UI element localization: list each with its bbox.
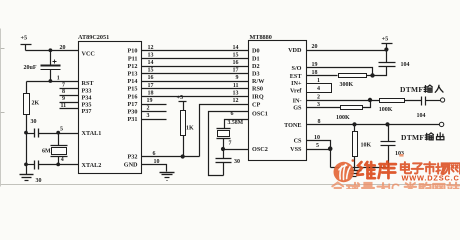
wire VDD row [307,50,387,52]
U1 pin label P37 [82,108,92,115]
wire GS row [307,107,341,109]
wire P31 stub [142,119,167,121]
svg-text:9: 9 [236,75,239,81]
svg-text:17: 17 [148,83,154,89]
wire S/G row [307,68,373,76]
U1 label AT89C2051 [78,34,109,41]
svg-text:2: 2 [317,95,320,101]
svg-text:DTMF: DTMF [400,85,423,94]
svg-text:CS: CS [294,138,302,145]
watermark wiku characters [357,162,396,179]
svg-text:13: 13 [233,90,239,96]
U2 pin label TONE [284,122,301,129]
svg-text:30: 30 [234,159,240,165]
svg-text:IN+: IN+ [291,80,302,87]
svg-text:6: 6 [153,151,156,157]
U1 pin label P14 [128,78,138,85]
svg-text:TONE: TONE [284,122,301,129]
svg-text:AT89C2051: AT89C2051 [78,34,109,41]
terminal DTMF input [441,98,445,102]
resistor R5 100K [379,99,422,114]
svg-text:CP: CP [252,102,260,109]
watermark TM mark [399,154,403,157]
U1 pin label P30 [128,109,138,116]
svg-text:D3: D3 [252,71,260,78]
resistor R6 100K [336,101,371,121]
U1 pin label GND [124,162,138,169]
svg-text:5: 5 [316,143,319,149]
+5 pull-up supply [177,94,187,111]
pin number 4 (Vref) [317,86,320,92]
wire XTAL2 row [39,164,79,166]
svg-text:RST: RST [82,80,95,87]
wire GND stub [142,165,167,172]
capacitor C6 104 [417,97,441,120]
wire P11-D1 [142,58,249,60]
node TONE-103 junction [385,122,389,126]
svg-text:OSC1: OSC1 [252,111,268,118]
svg-text:11: 11 [233,83,239,89]
pin number 12 [148,45,154,51]
wire OSC1 loop [209,112,249,176]
svg-text:P16: P16 [128,93,138,100]
capacitor C4 30pF [216,150,241,176]
svg-text:P11: P11 [128,55,138,62]
U1 pin label P12 [128,63,138,70]
U1 pin label P13 [128,71,138,78]
watermark www.dzsc.com [402,174,460,183]
svg-text:19: 19 [147,98,153,104]
label DTMF input [400,85,443,94]
svg-text:+5: +5 [21,34,28,41]
U2 pin label OSC1 [252,111,268,118]
U2 pin label GS [293,105,302,112]
U2 pin label CS [294,138,302,145]
U2 pin label D1 [252,55,260,62]
pin number 20 (VCC) [60,45,66,51]
svg-text:VSS: VSS [290,146,302,153]
node VSS junction [328,146,333,151]
wire P10-D0 [142,50,249,52]
+5 supply (left) [21,34,32,50]
node XTAL1 rail junction [24,131,28,135]
svg-text:6: 6 [231,111,234,117]
svg-text:18: 18 [312,70,318,76]
U2 pin label D0 [252,48,260,55]
U2 pin label R/W [252,78,265,85]
wire OSC2 row [224,149,249,151]
capacitor C5 104 [373,51,410,76]
U1 pin label P16 [128,93,138,100]
svg-text:16: 16 [148,75,154,81]
U2 pin label CP [252,102,260,109]
pin number 3 (P31) [147,113,150,119]
resistor R7 10K [353,125,372,168]
node TONE-10K junction [352,122,356,126]
svg-text:16: 16 [233,60,239,66]
svg-text:8: 8 [318,119,321,125]
wire P14-R/W [142,81,249,83]
wire P12-D2 [142,66,249,68]
U2 pin label IN+ [291,80,302,87]
+5 supply (right) [382,36,393,51]
svg-text:IN-: IN- [293,97,302,104]
pin number 17 [148,83,154,89]
wire P37 stub [60,108,79,110]
svg-text:14: 14 [148,60,154,66]
pin number 6 (OSC1) [231,111,234,117]
pin number 2 (IN-) [317,95,320,101]
svg-text:P17: P17 [128,101,138,108]
svg-text:MT8880: MT8880 [250,34,272,41]
wire P17 stub [142,104,167,106]
U2 pin label S/O [292,65,302,72]
wire CP to P32 link [200,105,249,157]
svg-text:104: 104 [417,113,426,119]
wire P16-IRQ [142,96,249,98]
resistor R3 300K [307,74,373,89]
node XTAL2-crystal junction [56,163,60,167]
U1 pin label P31 [128,116,138,123]
svg-text:7: 7 [229,141,232,147]
svg-text:WWW.DZSC.COM: WWW.DZSC.COM [402,174,460,183]
svg-text:IRQ: IRQ [252,93,264,100]
wire P33 stub [60,88,79,90]
node XTAL1-crystal junction [56,131,60,135]
pin number 7 (OSC2) [229,141,232,147]
U2 pin label D2 [252,63,260,70]
svg-text:RS0: RS0 [252,86,263,93]
svg-text:2K: 2K [32,101,40,107]
svg-text:1: 1 [57,76,60,82]
wire VSS row [307,149,331,151]
svg-text:P15: P15 [128,86,138,93]
capacitor C2 30pF [27,119,39,138]
svg-text:D2: D2 [252,63,260,70]
wire bottom ground rail [331,150,389,168]
svg-text:300K: 300K [340,82,354,88]
watermark quanqiuzuida-IC-caigouwangzhan characters [332,182,459,196]
capacitor C3 30pF [27,161,42,185]
U2 pin label D3 [252,71,260,78]
wire 1K to P32 row [183,136,185,157]
pin number 19 (P17) [147,98,153,104]
resistor R2 1K [181,111,195,136]
svg-text:100K: 100K [379,107,393,113]
op-amp U2 MT8880 body [249,41,307,161]
ground (left rail) [20,175,34,183]
wire P35 stub [60,102,79,104]
svg-text:P10: P10 [128,48,138,55]
svg-text:2: 2 [147,106,150,112]
U1 pin label P17 [128,101,138,108]
svg-text:DTMF: DTMF [401,133,424,142]
svg-text:8: 8 [62,89,65,95]
wire VCC row [26,50,79,52]
U1 pin label XTAL2 [82,162,102,169]
wire XTAL1 row [39,133,79,135]
U1 pin label P35 [82,101,92,108]
U2 pin label RS0 [252,86,263,93]
pin number 18 (EST) [312,70,318,76]
svg-text:3: 3 [317,102,320,108]
svg-text:7: 7 [62,82,65,88]
ground (U1 GND) [160,173,175,181]
svg-text:P37: P37 [82,108,92,115]
U1 pin label P34 [82,95,92,102]
svg-text:D0: D0 [252,48,260,55]
svg-text:OSC2: OSC2 [252,146,268,153]
U2 pin label IRQ [252,93,264,100]
U1 pin label P33 [82,88,92,95]
pin number 1 (IN+) [317,78,320,84]
pin number 19 (S/G) [312,62,318,68]
svg-text:S/O: S/O [292,65,302,72]
pin number 4 (XTAL2) [61,157,64,163]
crystal Y2 3.58M [217,120,244,150]
svg-text:14: 14 [233,45,239,51]
svg-text:+5: +5 [382,36,389,43]
svg-text:12: 12 [233,98,239,104]
svg-text:30: 30 [31,119,37,125]
svg-text:100K: 100K [336,115,350,121]
svg-text:P12: P12 [128,63,138,70]
wire P13-D3 [142,73,249,75]
pin number 17 [233,68,239,74]
pin number 9 [236,75,239,81]
pin number 20 (VDD) [312,44,318,50]
capacitor C7 103 [381,125,405,168]
pin number 13 [148,52,154,58]
svg-text:VCC: VCC [82,51,95,58]
pin number 7 (P33) [62,82,65,88]
op-amp U1 AT89C2051 body [79,42,142,174]
U2 pin label Vref [290,88,302,95]
pin number 9 (P35) [62,96,65,102]
svg-text:20: 20 [312,44,318,50]
U2 label MT8880 [250,34,272,41]
pin number 12 (CP) [233,98,239,104]
svg-text:18: 18 [148,90,154,96]
svg-text:10: 10 [314,135,320,141]
pin number 15 [233,52,239,58]
U2 pin label VDD [288,47,302,54]
U1 pin label P15 [128,86,138,93]
node IN- junction [368,98,372,102]
node OSC2 junction [221,147,225,151]
svg-text:D1: D1 [252,55,260,62]
wire crystal row [225,120,249,129]
pin number 13 [233,90,239,96]
pin number 3 (GS) [317,102,320,108]
svg-text:17: 17 [233,68,239,74]
pin number 15 [148,68,154,74]
svg-text:IC: IC [388,182,401,190]
svg-text:P30: P30 [128,109,138,116]
svg-text:GND: GND [124,162,138,169]
svg-text:104: 104 [401,62,410,68]
wire P15-RS0 [142,88,249,90]
node EST/SG/C5 junction [370,73,374,77]
U2 pin label VSS [290,146,302,153]
U2 pin label EST [290,73,303,80]
pin number 8 (P34) [62,89,65,95]
svg-text:4: 4 [61,157,64,163]
node RST junction [49,79,53,83]
svg-text:30: 30 [36,178,42,184]
svg-text:XTAL1: XTAL1 [82,130,102,137]
pin number 2 (P30) [147,106,150,112]
svg-text:+5: +5 [177,94,184,101]
svg-text:4: 4 [317,86,320,92]
pin number 8 (TONE) [318,119,321,125]
svg-text:20uF: 20uF [24,65,37,71]
wire P32 row [142,156,200,158]
svg-text:13: 13 [148,52,154,58]
pin number 11 (P37) [61,103,67,109]
node VCC-cap junction [49,48,53,52]
svg-text:P31: P31 [128,116,138,123]
U1 pin label P11 [128,55,138,62]
svg-text:P13: P13 [128,71,138,78]
U1 pin label P10 [128,48,138,55]
wire P30 stub [142,111,167,113]
U1 pin label VCC [82,51,95,58]
pin number 5 (VSS) [316,143,319,149]
pin number 10 (GND) [154,159,160,165]
svg-text:3: 3 [147,113,150,119]
U2 pin label OSC2 [252,146,268,153]
watermark logo [334,159,355,182]
svg-text:P14: P14 [128,78,138,85]
pin number 10 (CS) [314,135,320,141]
svg-text:3.58M: 3.58M [228,120,244,126]
pin number 16 [233,60,239,66]
pin number 11 [233,83,239,89]
U1 pin label P32 [128,154,138,161]
resistor R1 2K [24,82,40,115]
capacitor C1 20uF [24,51,61,82]
node XTAL2 rail junction [24,163,28,167]
svg-text:15: 15 [148,68,154,74]
svg-text:P32: P32 [128,154,138,161]
U1 pin label XTAL1 [82,130,102,137]
wire TONE row [307,124,440,126]
node P32 pull-up junction [181,154,185,158]
label DTMF output [401,133,444,142]
U1 pin label RST [82,80,95,87]
pin number 14 [148,60,154,66]
pin number 6 (P32) [153,151,156,157]
svg-text:12: 12 [148,45,154,51]
svg-text:R/W: R/W [252,78,265,85]
svg-text:XTAL2: XTAL2 [82,162,102,169]
svg-text:15: 15 [233,52,239,58]
crystal Y1 6M [42,134,68,165]
ground (right) [348,168,362,179]
svg-text:10K: 10K [361,143,372,149]
resistor R4 (Vref-IN+ box) [307,84,332,93]
svg-text:VDD: VDD [288,47,302,54]
pin number 14 [233,45,239,51]
wire RST row [27,81,79,83]
U2 pin label IN- [293,97,302,104]
wire ground rail left [26,115,28,175]
svg-text:5: 5 [60,126,63,132]
svg-text:1K: 1K [186,126,194,132]
wire P34 stub [60,95,79,97]
svg-text:19: 19 [312,62,318,68]
svg-text:6M: 6M [42,148,51,154]
node VDD junction [384,47,388,51]
pin number 5 (XTAL1) [60,126,63,132]
terminal DTMF output [439,122,443,126]
watermark dianzishichangwang characters [401,162,460,174]
pin number 18 [148,90,154,96]
svg-text:10: 10 [154,159,160,165]
wire CS row [307,141,331,150]
svg-text:9: 9 [62,96,65,102]
svg-text:Vref: Vref [290,88,302,95]
pin number 16 [148,75,154,81]
wire IN- row [307,100,380,102]
svg-text:GS: GS [293,105,302,112]
pin number 1 (RST) [57,76,60,82]
svg-text:20: 20 [60,45,66,51]
scan border artifacts [1,29,460,187]
svg-text:EST: EST [290,73,303,80]
